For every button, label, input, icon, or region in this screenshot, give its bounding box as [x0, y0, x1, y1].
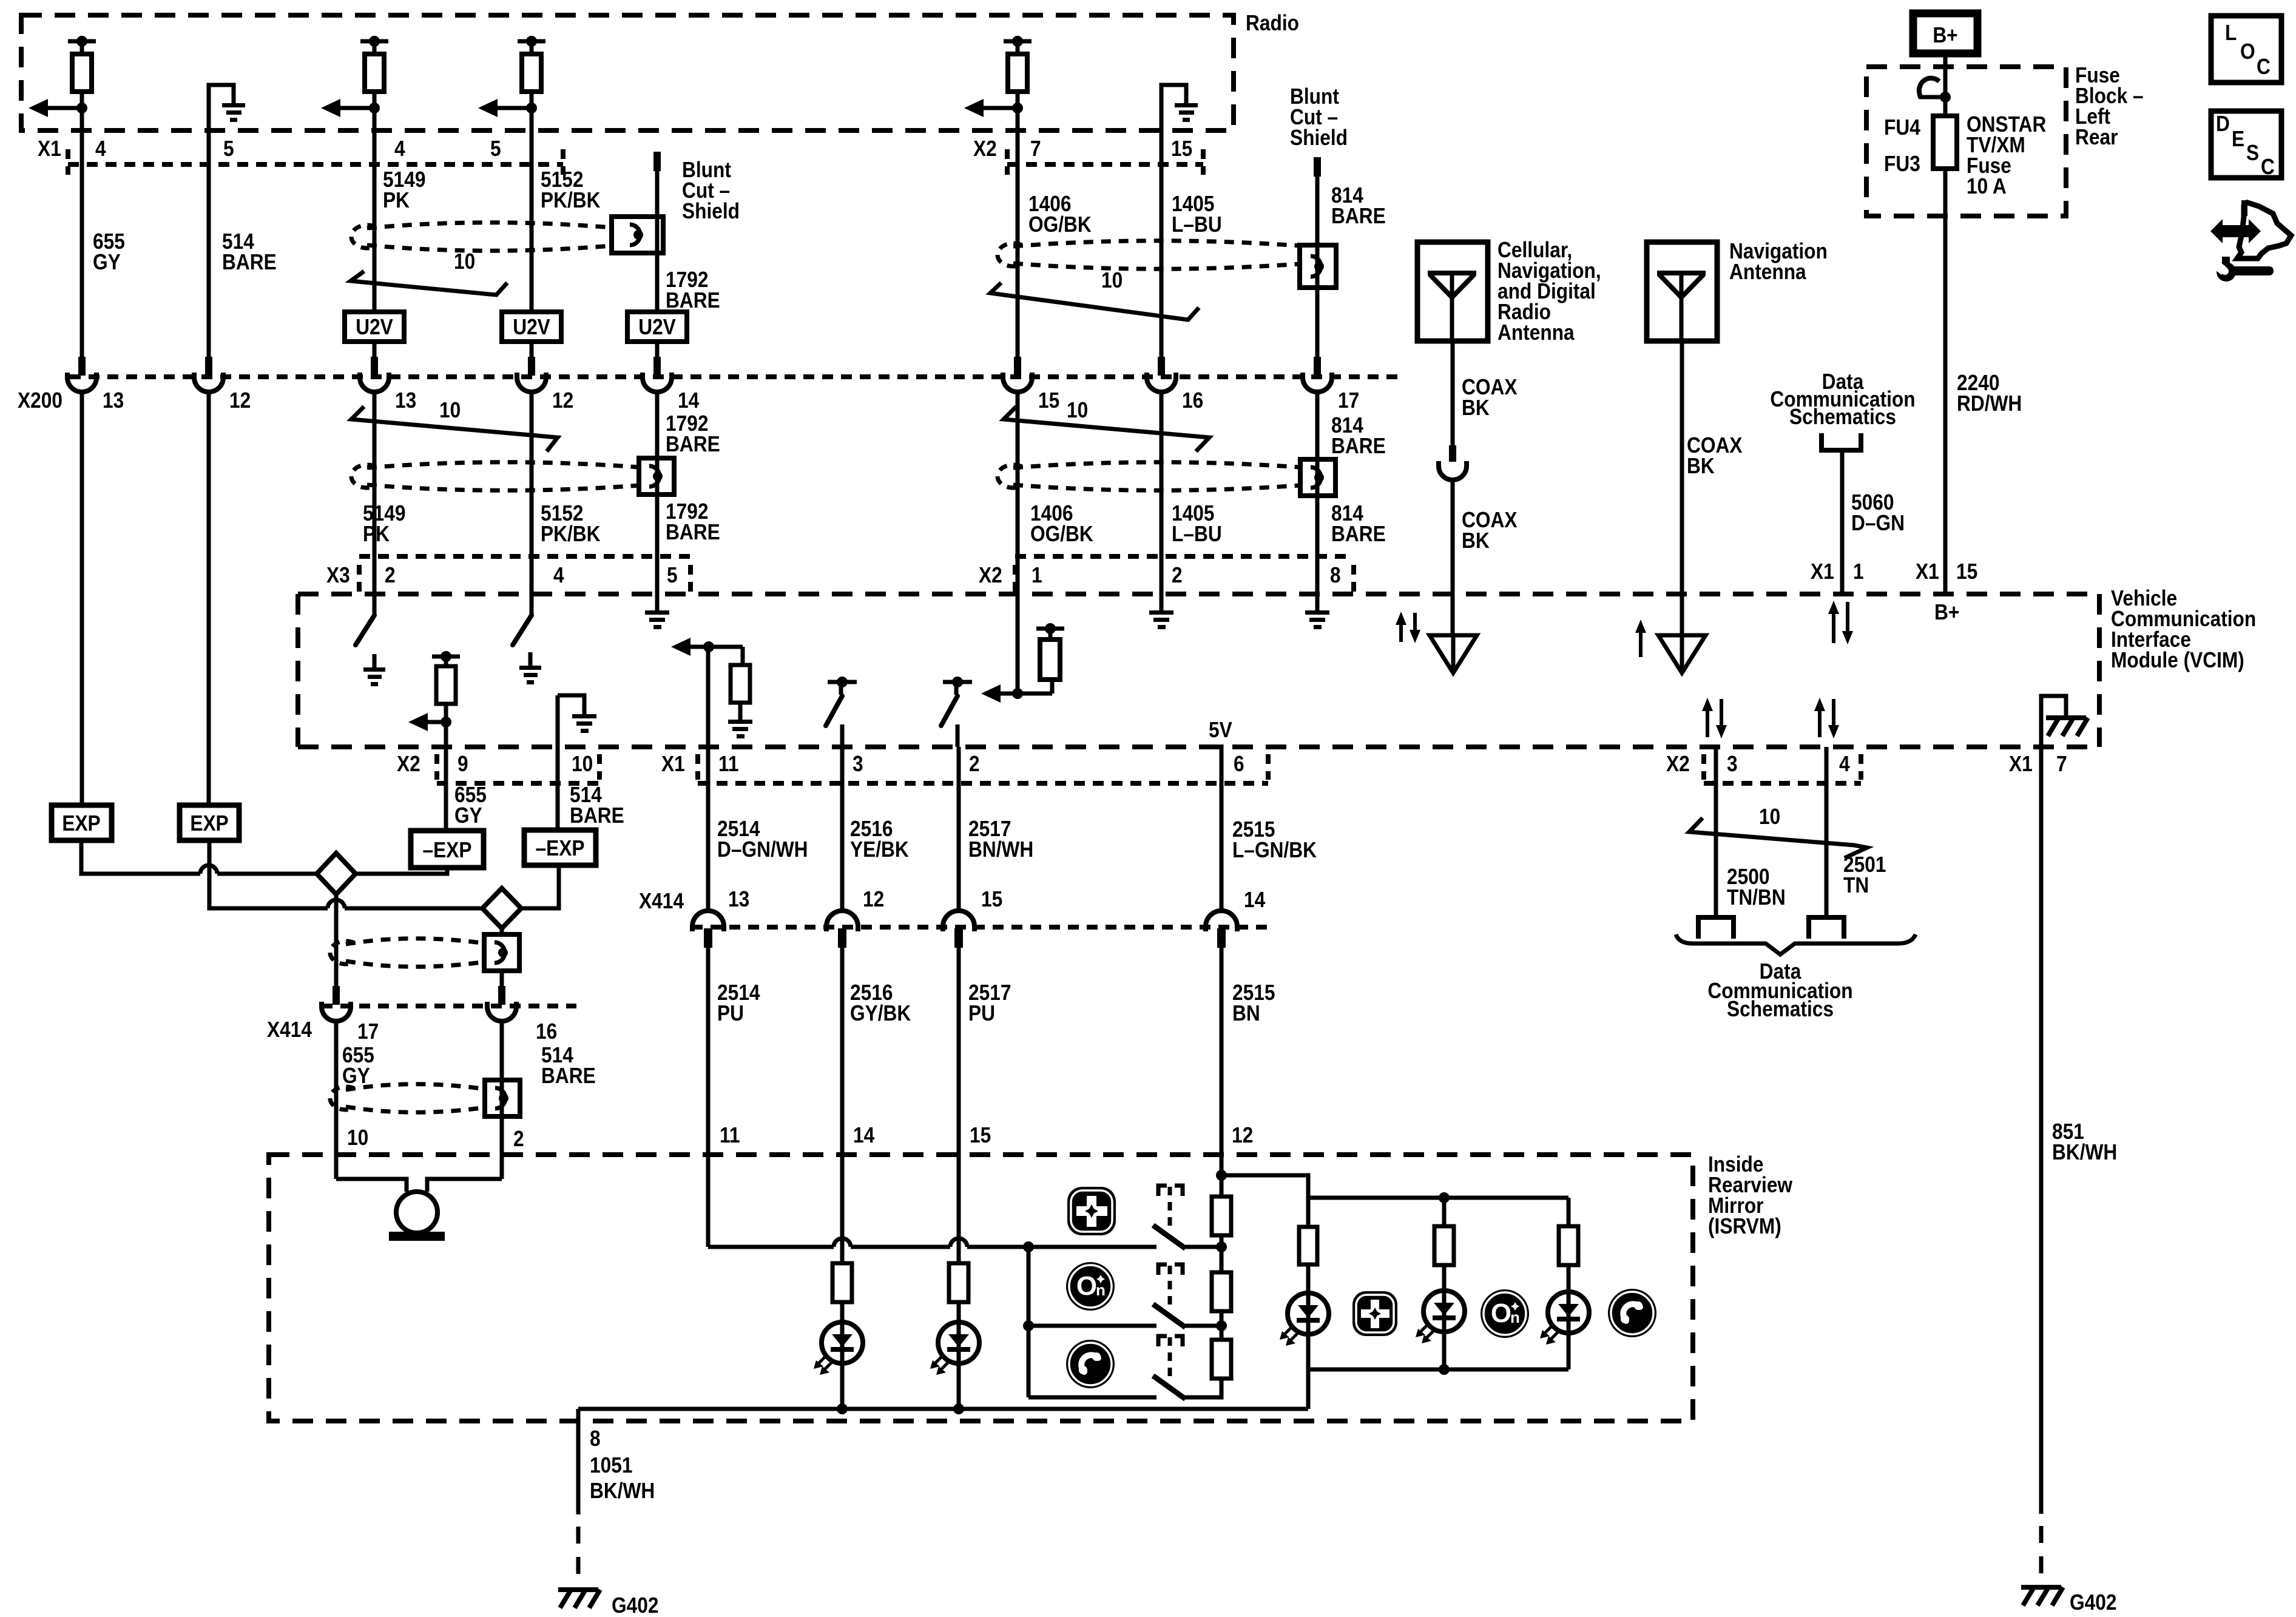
wire 2516 YE/BK	[840, 747, 845, 913]
svg-text:12: 12	[863, 887, 884, 911]
svg-text:15: 15	[1171, 137, 1192, 161]
svg-text:14: 14	[853, 1123, 874, 1147]
brace to Data Communication Schematics	[1676, 934, 1916, 954]
U2V splice box 2	[502, 312, 561, 342]
svg-text:BARE: BARE	[570, 803, 624, 828]
U2V splice box 3	[627, 312, 687, 342]
svg-text:5V: 5V	[1209, 718, 1232, 742]
inline connector X200 pin 12 (wire x=344)	[194, 357, 223, 392]
shield ellipse (1406/1405 pair lower)	[998, 462, 1300, 491]
inline connector X414 (wire x=1580)	[943, 911, 974, 948]
wire B+ to fuse FU4/FU3	[1943, 53, 1948, 116]
svg-text:5: 5	[490, 137, 501, 161]
ground (radio internal, circuit 514)	[209, 85, 245, 164]
svg-text:10: 10	[572, 752, 593, 776]
svg-text:15: 15	[1038, 388, 1059, 413]
wire 655 GY (X1-4 to X200-13)	[80, 108, 84, 359]
splice diamond 1	[317, 853, 356, 894]
twisted pair crossover 10 (1406/1405 lower)	[1004, 398, 1209, 451]
resistor R3 (switch ladder)	[1212, 1340, 1231, 1379]
resistor R2 (switch ladder)	[1212, 1272, 1231, 1311]
svg-text:S: S	[2246, 141, 2259, 165]
inline connector X200 pin 16 (wire x=1914)	[1147, 357, 1176, 392]
svg-text:Rear: Rear	[2075, 125, 2118, 149]
svg-text:L–GN/BK: L–GN/BK	[1232, 838, 1317, 862]
inline connector X414 (wire x=2013)	[1206, 911, 1237, 948]
svg-text:BK/WH: BK/WH	[2052, 1140, 2117, 1164]
svg-text:14: 14	[1244, 888, 1265, 912]
wire 2514 PU	[706, 947, 711, 1247]
shield ellipse (655/514 mic pair lower)	[330, 1084, 485, 1113]
svg-text:U2V: U2V	[638, 315, 676, 339]
wire 2517 BN/WH	[957, 747, 961, 913]
ground (1405 in VCIM)	[1149, 610, 1173, 629]
resistor (bank LED 1)	[1299, 1227, 1317, 1264]
svg-text:BN/WH: BN/WH	[968, 837, 1033, 862]
icon OnStar (bank)	[1481, 1289, 1529, 1338]
shield ellipse (1406/1405 pair upper)	[998, 241, 1300, 269]
svg-text:U2V: U2V	[513, 315, 550, 339]
svg-text:17: 17	[357, 1019, 379, 1044]
svg-text:PK/BK: PK/BK	[541, 522, 601, 546]
wire 2514 D-GN/WH	[706, 747, 711, 913]
svg-text:X3: X3	[326, 563, 350, 587]
icon OnStar (button 2)	[1066, 1262, 1115, 1311]
antenna (Navigation)	[1647, 242, 1717, 341]
wire 655 to microphone	[336, 1179, 407, 1192]
wire 1792 BARE upper	[655, 171, 660, 312]
connector X2 dotted line (VCIM top)	[1013, 565, 1018, 592]
connector X3 dotted line	[357, 565, 362, 592]
svg-text:BARE: BARE	[541, 1064, 596, 1088]
wire 2517 LED to bus	[957, 1363, 961, 1409]
svg-text:–EXP: –EXP	[536, 836, 585, 860]
svg-text:(ISRVM): (ISRVM)	[1708, 1214, 1781, 1238]
svg-text:B+: B+	[1933, 23, 1957, 47]
svg-text:C: C	[2257, 55, 2271, 79]
svg-text:7: 7	[2056, 752, 2067, 776]
shield termination box (814 upper)	[1300, 245, 1336, 288]
svg-text:n: n	[1510, 1308, 1520, 1326]
svg-text:4: 4	[1839, 752, 1850, 776]
svg-text:5: 5	[667, 563, 678, 587]
connector X1 dotted line	[66, 149, 70, 175]
svg-text:FU4: FU4	[1884, 115, 1920, 140]
svg-text:2: 2	[969, 752, 980, 776]
svg-text:X414: X414	[639, 889, 684, 913]
ground (814 in VCIM)	[1305, 610, 1329, 629]
svg-text:B+: B+	[1934, 600, 1959, 624]
svg-text:Shield: Shield	[1290, 126, 1348, 150]
bank col1 wires	[1306, 1198, 1311, 1228]
resistor (bank LED 3)	[1559, 1226, 1578, 1265]
svg-text:X2: X2	[397, 752, 420, 776]
fuse element hook	[1919, 78, 1939, 98]
bank col3 wires	[1567, 1198, 1571, 1227]
wire 2515 BN	[1220, 947, 1224, 1197]
svg-text:Module (VCIM): Module (VCIM)	[2111, 648, 2244, 672]
svg-text:X2: X2	[1666, 752, 1690, 776]
svg-text:BARE: BARE	[1331, 522, 1386, 546]
svg-text:D–GN/WH: D–GN/WH	[717, 837, 808, 862]
Inside Rearview Mirror (ISRVM) dashed box	[269, 1155, 1693, 1421]
resistor (2517 LED)	[949, 1263, 968, 1302]
bank bus to main ground bus	[1306, 1369, 1311, 1409]
wire 2500 TN/BN	[1714, 747, 1718, 917]
switch2 contact link	[1183, 1324, 1221, 1328]
svg-text:Schematics: Schematics	[1727, 997, 1834, 1021]
ISRVM ground bus 1051	[578, 1407, 1308, 1411]
svg-text:BK: BK	[1462, 396, 1490, 420]
svg-text:BK: BK	[1687, 454, 1715, 478]
svg-text:Antenna: Antenna	[1497, 320, 1575, 345]
svg-text:X2: X2	[973, 137, 997, 161]
wire 514 BARE (X1-5 to X200-12)	[207, 164, 211, 359]
icon phone (button 3)	[1066, 1340, 1115, 1388]
wire 5060 D-GN	[1840, 450, 1845, 594]
wire 655 GY lower	[80, 391, 84, 805]
svg-text:PU: PU	[968, 1001, 995, 1025]
twisted pair crossover 10 (5149/5152 lower)	[351, 398, 558, 451]
resistor (2516 LED)	[832, 1263, 852, 1302]
microphone	[389, 1192, 445, 1241]
svg-text:PU: PU	[717, 1001, 744, 1025]
icon emergency cross (bank)	[1352, 1291, 1397, 1336]
shield termination box (514 lower)	[485, 1080, 520, 1116]
inline connector X200 pin 14 (wire x=1083)	[643, 357, 672, 392]
svg-text:16: 16	[536, 1019, 557, 1044]
svg-text:L: L	[2225, 21, 2237, 45]
bank LED 2	[1416, 1291, 1465, 1343]
Radio module dashed box	[21, 15, 1234, 130]
svg-text:O: O	[1076, 1271, 1097, 1301]
resistor R1 (switch ladder)	[1212, 1197, 1231, 1235]
svg-text:15: 15	[1956, 559, 1977, 584]
switch contact (2516) in VCIM	[826, 677, 857, 726]
svg-text:16: 16	[1182, 388, 1203, 413]
-EXP box 2	[524, 830, 596, 865]
shield termination box (514 upper)	[484, 934, 519, 971]
resistor (bank LED 2)	[1434, 1226, 1454, 1265]
R3 to switch3 contact	[1183, 1379, 1221, 1397]
svg-text:O: O	[2240, 39, 2255, 64]
coax input triangle (cellular antenna)	[1430, 635, 1477, 673]
terminating resistor at X2-9 (655)	[408, 651, 460, 731]
bidirectional data arrows at X2-4	[1818, 709, 1822, 737]
svg-text:2: 2	[513, 1127, 524, 1151]
svg-text:12: 12	[552, 388, 573, 413]
svg-text:3: 3	[1727, 752, 1738, 776]
svg-text:PK: PK	[363, 522, 390, 546]
resistor (radio, circuit 655) with arrow to X1-4	[29, 36, 96, 117]
svg-text:4: 4	[394, 137, 405, 161]
splice diamond 2	[482, 888, 521, 928]
svg-text:BARE: BARE	[1331, 434, 1386, 458]
svg-text:15: 15	[970, 1123, 991, 1147]
wire coax cellular upper	[1451, 341, 1455, 445]
shield termination box (1792 lower)	[639, 458, 674, 495]
wire (x=1578) to pin	[956, 724, 960, 747]
wire between R2/R3	[1220, 1311, 1224, 1341]
svg-text:BARE: BARE	[222, 250, 277, 274]
wire 655 diamond1 to X414-17	[334, 894, 339, 1005]
svg-text:14: 14	[678, 388, 699, 413]
wire 2516 GY/BK	[840, 947, 845, 1263]
svg-text:EXP: EXP	[62, 811, 100, 836]
svg-text:n: n	[1096, 1281, 1106, 1299]
wire 655 to ISRVM pin 10	[334, 1021, 339, 1179]
pushbutton switch 2 (OnStar)	[1155, 1264, 1183, 1326]
wire 5152 shield drop with break	[513, 615, 532, 645]
svg-text:X1: X1	[1811, 559, 1834, 584]
bank LED 1	[1280, 1293, 1329, 1346]
svg-text:OG/BK: OG/BK	[1028, 212, 1092, 237]
ground (1792 in VCIM)	[645, 610, 669, 629]
svg-text:O: O	[1491, 1298, 1511, 1328]
inline connector X414 (wire x=1388)	[826, 911, 858, 948]
svg-text:TN: TN	[1843, 873, 1869, 897]
svg-text:BK/WH: BK/WH	[590, 1479, 655, 1503]
inline connector X200 pin 13 (wire x=617)	[360, 357, 389, 392]
svg-text:10: 10	[1759, 805, 1780, 829]
svg-text:G402: G402	[2070, 1590, 2116, 1615]
svg-text:U2V: U2V	[356, 315, 393, 339]
wire 2517 to LED	[957, 1302, 961, 1322]
svg-text:L–BU: L–BU	[1172, 212, 1222, 237]
connector X414 mic dotted line	[322, 1004, 576, 1008]
resistor (radio, circuit 5152) with arrow	[478, 36, 545, 117]
wire 655 GY X2-9 to -EXP	[444, 722, 448, 831]
LED bank top bus	[1308, 1196, 1568, 1200]
inline connector X200 pin 15 (wire x=1677)	[1003, 357, 1032, 392]
shield termination box (814 lower)	[1300, 459, 1335, 496]
svg-text:1: 1	[1853, 559, 1864, 584]
wire EXP2 to splice diamond 2	[209, 840, 328, 908]
wire coax cellular lower	[1451, 479, 1455, 635]
svg-text:GY/BK: GY/BK	[850, 1001, 911, 1025]
svg-text:3: 3	[853, 752, 863, 776]
terminal end 2501	[1806, 917, 1846, 939]
wire 5152 PK/BK upper	[530, 108, 534, 312]
svg-text:D–GN: D–GN	[1851, 511, 1905, 535]
service icon: double arrow, outline, wrench	[2210, 200, 2291, 282]
shield ellipse (655/514 mic pair upper)	[330, 939, 485, 967]
svg-text:Radio: Radio	[1246, 11, 1299, 35]
bidirectional data arrows at X2-3	[1706, 709, 1709, 737]
ground (5149 shield in VCIM)	[363, 667, 385, 686]
svg-text:EXP: EXP	[190, 811, 228, 836]
resistor (radio, circuit 1406) with arrow	[964, 36, 1032, 117]
X2-10 internal ground link	[558, 695, 584, 714]
svg-text:–EXP: –EXP	[423, 838, 472, 862]
svg-text:13: 13	[395, 388, 416, 413]
wire between R1/R2	[1220, 1235, 1224, 1274]
Vehicle Communication Interface Module (VCIM) dashed box	[298, 594, 2099, 747]
switch bus row 3	[1028, 1396, 1156, 1400]
shield termination box (1792 upper)	[612, 217, 663, 253]
wire 2516 to LED	[840, 1302, 845, 1322]
svg-text:17: 17	[1338, 388, 1359, 413]
svg-text:FU3: FU3	[1884, 152, 1920, 176]
wire 2516 LED to bus	[840, 1363, 845, 1409]
wire 2517 PU	[957, 947, 961, 1263]
svg-text:PK: PK	[383, 188, 410, 212]
node 2514 in VCIM: arrow, junction, resistor to ground	[671, 638, 752, 738]
ground (radio internal, circuit 1405)	[1161, 85, 1198, 164]
svg-text:BARE: BARE	[666, 288, 720, 312]
svg-text:BARE: BARE	[666, 432, 720, 456]
bidirectional arrows at cellular coax	[1399, 623, 1403, 642]
off-page bracket (data link)	[1822, 433, 1861, 450]
svg-text:10: 10	[439, 398, 461, 422]
svg-text:12: 12	[229, 388, 251, 413]
wire 5149 PK lower	[373, 391, 377, 615]
twisted pair crossover 10 (2500/2501)	[1689, 805, 1867, 858]
switch bus row 2	[1028, 1324, 1156, 1328]
svg-text:RD/WH: RD/WH	[1957, 391, 2022, 416]
svg-text:OG/BK: OG/BK	[1030, 522, 1093, 546]
wire (x=1388) to pin	[840, 724, 845, 747]
wire 514 to microphone	[427, 1179, 502, 1192]
icon phone (bank)	[1608, 1289, 1656, 1337]
coax input triangle (navigation antenna)	[1658, 635, 1706, 673]
svg-text:11: 11	[720, 1123, 740, 1147]
bank col2 wires	[1442, 1198, 1447, 1227]
switch common vertical	[1027, 1247, 1031, 1397]
wire 1405 L-BU lower	[1160, 391, 1164, 610]
bank LED 3	[1540, 1292, 1589, 1345]
EXP box 1	[52, 805, 112, 840]
svg-text:8: 8	[1330, 563, 1341, 587]
svg-text:BK: BK	[1462, 528, 1490, 553]
blunt cut shield stub (814)	[1314, 157, 1321, 177]
twisted pair crossover 10 (1406/1405 upper)	[990, 268, 1199, 320]
svg-text:1051: 1051	[590, 1453, 632, 1477]
svg-text:GY: GY	[342, 1064, 370, 1088]
svg-text:X1: X1	[38, 137, 61, 161]
wire 2514 inside VCIM	[706, 647, 711, 747]
ground G402 (left)	[558, 1590, 600, 1608]
blunt cut shield stub (1792)	[653, 152, 661, 171]
pushbutton switch 1 (emergency)	[1155, 1186, 1183, 1247]
svg-text:C: C	[2261, 155, 2275, 179]
svg-text:X1: X1	[2009, 752, 2033, 776]
wire 514 diamond2 to shield box	[500, 928, 504, 935]
inline connector X414 pin 17	[322, 986, 351, 1021]
inline connector X200 pin 13 (wire x=135)	[67, 357, 96, 392]
inline coax connector (cellular)	[1449, 445, 1456, 462]
wire 1406 OG/BK upper	[1016, 108, 1020, 359]
svg-text:Schematics: Schematics	[1789, 405, 1896, 429]
terminating resistor at X2-1 (1406)	[981, 623, 1064, 703]
wire 514 to ISRVM pin 2	[500, 1021, 504, 1179]
svg-text:L–BU: L–BU	[1172, 522, 1222, 546]
svg-text:10 A: 10 A	[1967, 174, 2007, 198]
svg-text:4: 4	[95, 137, 106, 161]
U2V splice box 1	[345, 312, 404, 342]
wire 1405 L-BU upper	[1160, 164, 1164, 359]
wire 814 BARE lower	[1315, 391, 1320, 610]
wire 2514 bus across ISRVM	[708, 1238, 1156, 1252]
svg-text:2: 2	[385, 563, 396, 587]
connector X1 bottom dotted line	[695, 754, 700, 780]
svg-text:YE/BK: YE/BK	[850, 837, 909, 862]
svg-text:D: D	[2216, 112, 2230, 136]
svg-text:Antenna: Antenna	[1729, 260, 1807, 284]
receive arrow at navigation coax	[1639, 630, 1643, 657]
svg-text:E: E	[2232, 127, 2244, 151]
ground (X2-10 internal)	[572, 714, 596, 733]
bidirectional data arrows at X1-1	[1832, 612, 1835, 643]
svg-text:Shield: Shield	[682, 199, 740, 223]
wire 2240 RD/WH	[1943, 169, 1948, 594]
inline connector X414 (wire x=1167)	[692, 911, 724, 948]
wire 5149 PK upper	[373, 108, 377, 312]
svg-text:2: 2	[1172, 563, 1183, 587]
antenna (Cellular, Navigation and Digital Radio)	[1417, 242, 1488, 341]
wire 5152 PK/BK lower	[530, 391, 534, 615]
terminal end 2500	[1696, 917, 1736, 939]
svg-text:X1: X1	[661, 752, 685, 776]
EXP box 2	[180, 805, 239, 840]
svg-text:GY: GY	[93, 250, 121, 274]
wire 1792 BARE lower	[655, 391, 660, 610]
svg-text:11: 11	[718, 752, 738, 776]
svg-text:BARE: BARE	[1331, 204, 1386, 228]
chassis ground (VCIM internal)	[2046, 718, 2088, 736]
connector X414 data dotted line	[692, 925, 1268, 930]
wire 514 BARE lower	[207, 391, 211, 805]
svg-text:6: 6	[1234, 752, 1244, 776]
LOC reference box	[2211, 16, 2281, 83]
wire coax navigation	[1680, 341, 1684, 635]
svg-text:GY: GY	[454, 803, 482, 828]
wire 2501 TN	[1825, 747, 1829, 917]
svg-text:5: 5	[223, 137, 234, 161]
switch1 contact link	[1183, 1245, 1221, 1249]
status LED (2516)	[814, 1322, 863, 1375]
fuse block dashed box (Fuse Block - Left Rear)	[1866, 67, 2066, 216]
svg-text:10: 10	[1067, 398, 1088, 422]
ground G402 (right)	[2021, 1587, 2063, 1605]
connector X200 dotted line	[70, 374, 1402, 379]
wire 1406 OG/BK lower	[1016, 391, 1020, 694]
svg-text:7: 7	[1030, 137, 1041, 161]
svg-text:PK/BK: PK/BK	[541, 188, 601, 212]
wire 814 BARE upper	[1315, 177, 1320, 359]
DESC reference box	[2211, 111, 2281, 179]
svg-text:10: 10	[454, 249, 475, 274]
connector X2 bottom dotted line	[434, 754, 439, 780]
wire X1-7 to chassis ground in VCIM	[2041, 696, 2066, 747]
wire EXP1 to splice diamond 1	[81, 840, 200, 874]
LED bank bottom bus	[1308, 1368, 1568, 1372]
svg-text:12: 12	[1232, 1123, 1253, 1147]
icon emergency cross (button 1)	[1067, 1187, 1116, 1235]
switch contact (2517) in VCIM	[941, 677, 972, 726]
ground (5152 shield in VCIM)	[519, 666, 541, 684]
status LED (2517)	[930, 1322, 979, 1375]
svg-text:4: 4	[553, 563, 564, 587]
wire 514 shield box to X414-16	[500, 970, 504, 1005]
svg-text:X200: X200	[18, 388, 62, 413]
shield ellipse (5149/5152 pair lower)	[351, 462, 639, 491]
shield ellipse (5149/5152 pair upper)	[351, 223, 612, 251]
wire 851 BK/WH	[2039, 747, 2044, 1514]
resistor (radio, circuit 5149) with arrow	[321, 36, 388, 117]
wire -EXP2 to splice diamond 2	[521, 865, 559, 908]
wire 1051 BK/WH down	[576, 1409, 581, 1514]
